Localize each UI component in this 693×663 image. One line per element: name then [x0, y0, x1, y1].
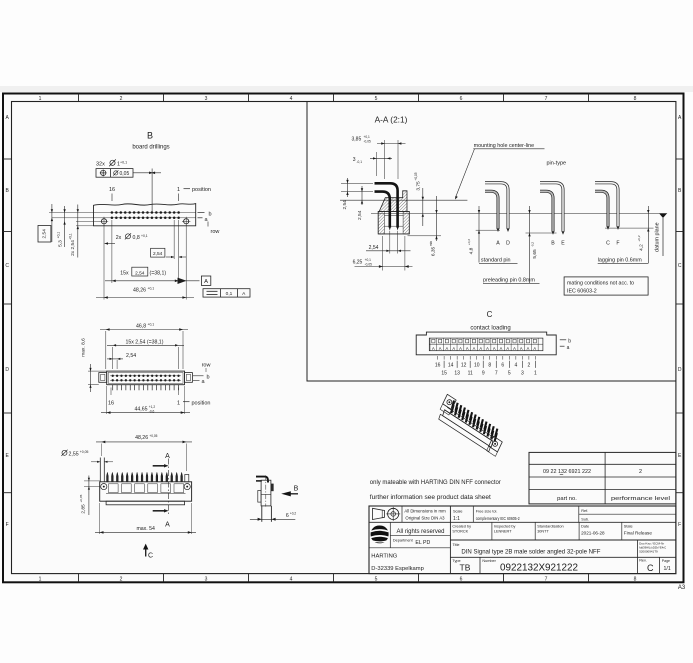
svg-text:contact loading: contact loading [470, 326, 510, 332]
svg-text:A: A [459, 346, 462, 351]
svg-text:+0,2: +0,2 [637, 235, 641, 241]
svg-text:F: F [6, 522, 9, 528]
svg-text:1/1: 1/1 [664, 566, 671, 572]
svg-text:09 22 132 6921 222: 09 22 132 6921 222 [543, 469, 591, 475]
svg-text:datum plane: datum plane [655, 222, 661, 252]
svg-text:C: C [487, 310, 493, 319]
svg-text:A: A [165, 522, 170, 529]
svg-text:C: C [5, 263, 9, 269]
svg-text:A: A [479, 346, 482, 351]
svg-text:E: E [561, 241, 565, 247]
svg-text:5: 5 [375, 96, 378, 102]
svg-text:0,8: 0,8 [133, 235, 140, 241]
svg-text:30NTT: 30NTT [537, 529, 549, 533]
svg-text:2x 2,54: 2x 2,54 [70, 240, 76, 256]
svg-text:2: 2 [639, 469, 642, 475]
svg-text:A: A [446, 346, 449, 351]
svg-text:+0,05: +0,05 [79, 494, 83, 502]
svg-text:A: A [513, 346, 516, 351]
svg-text:performance level: performance level [611, 496, 670, 502]
svg-text:2,54: 2,54 [42, 229, 48, 239]
svg-text:A: A [527, 346, 530, 351]
svg-text:3,85: 3,85 [352, 136, 362, 142]
svg-text:10: 10 [474, 363, 480, 369]
svg-text:A: A [493, 346, 496, 351]
svg-text:1: 1 [177, 400, 180, 406]
svg-text:32x: 32x [96, 162, 105, 168]
svg-text:DIN Signal type 2B male solder: DIN Signal type 2B male solder angled 32… [461, 548, 600, 555]
svg-text:2x: 2x [116, 235, 122, 241]
svg-text:A: A [432, 346, 435, 351]
svg-text:further information see produc: further information see product data she… [370, 494, 491, 501]
svg-text:A: A [496, 241, 500, 247]
svg-text:8: 8 [634, 577, 637, 583]
svg-text:6: 6 [501, 363, 504, 369]
svg-text:46,8: 46,8 [136, 324, 146, 330]
svg-text:2: 2 [527, 363, 530, 369]
svg-text:-0,05: -0,05 [364, 140, 371, 144]
svg-text:2,54: 2,54 [135, 270, 145, 276]
svg-text:2,54: 2,54 [342, 200, 348, 210]
svg-text:1: 1 [39, 96, 42, 102]
svg-text:Free size tol.: Free size tol. [476, 509, 498, 513]
svg-text:mating conditions not acc. to: mating conditions not acc. to [567, 280, 634, 286]
svg-text:520000941T9: 520000941T9 [639, 549, 658, 553]
svg-text:7: 7 [495, 371, 498, 377]
svg-text:1: 1 [39, 577, 42, 583]
svg-text:2021-06-28: 2021-06-28 [581, 530, 605, 535]
svg-text:2,85: 2,85 [80, 504, 86, 514]
svg-text:15x 2,54 (=38,1): 15x 2,54 (=38,1) [126, 340, 164, 346]
svg-text:A: A [165, 453, 170, 460]
svg-text:EL PD: EL PD [415, 540, 430, 546]
svg-text:A: A [466, 346, 469, 351]
svg-text:LENNERT: LENNERT [494, 529, 512, 533]
svg-text:TB: TB [460, 562, 471, 572]
svg-text:8: 8 [634, 96, 637, 102]
svg-text:All Dimensions in mm: All Dimensions in mm [404, 508, 446, 513]
svg-text:standard pin: standard pin [481, 257, 511, 263]
svg-text:4: 4 [514, 363, 517, 369]
svg-text:row: row [211, 229, 220, 235]
svg-text:complementary IEC 60605-2: complementary IEC 60605-2 [476, 516, 521, 521]
svg-text:4,8: 4,8 [469, 247, 475, 254]
svg-text:16: 16 [109, 187, 115, 193]
svg-text:part no.: part no. [557, 496, 577, 502]
svg-text:A3: A3 [678, 585, 686, 591]
svg-text:0,1: 0,1 [226, 291, 233, 297]
svg-text:2,54: 2,54 [369, 245, 379, 251]
svg-text:D: D [506, 241, 510, 247]
svg-text:3: 3 [205, 577, 208, 583]
svg-text:+0,1: +0,1 [56, 232, 60, 239]
svg-text:preleading pin 0.8mm: preleading pin 0.8mm [483, 277, 535, 283]
svg-text:A: A [473, 346, 476, 351]
svg-text:5,3: 5,3 [58, 240, 64, 247]
svg-text:+0,2: +0,2 [467, 239, 471, 245]
svg-text:2: 2 [120, 96, 123, 102]
svg-text:14: 14 [448, 363, 454, 369]
svg-text:48,26: 48,26 [135, 435, 148, 441]
svg-text:HARTING: HARTING [371, 554, 397, 560]
svg-text:+0,05: +0,05 [149, 434, 157, 438]
svg-text:IEC 60603-2: IEC 60603-2 [567, 289, 597, 295]
svg-text:F: F [616, 241, 619, 247]
svg-text:A-A (2:1): A-A (2:1) [375, 115, 408, 125]
svg-text:6: 6 [286, 513, 289, 519]
svg-text:3: 3 [205, 96, 208, 102]
svg-text:+0,1: +0,1 [148, 286, 155, 290]
svg-text:Inspected by: Inspected by [494, 524, 516, 528]
svg-text:Created by: Created by [452, 524, 471, 528]
svg-text:board drillings: board drillings [132, 145, 169, 151]
svg-text:-0,2: -0,2 [531, 242, 535, 248]
svg-text:+0,05: +0,05 [80, 450, 89, 454]
svg-text:+0,05: +0,05 [414, 172, 418, 180]
svg-text:max. 8,6: max. 8,6 [81, 338, 87, 357]
svg-text:48,26: 48,26 [133, 288, 146, 294]
svg-text:44,65: 44,65 [135, 406, 148, 412]
svg-text:pin-type: pin-type [547, 161, 567, 167]
svg-text:7: 7 [545, 96, 548, 102]
svg-text:A: A [506, 346, 509, 351]
svg-text:A: A [500, 346, 503, 351]
svg-text:Sub.: Sub. [581, 517, 589, 521]
svg-text:1:1: 1:1 [453, 516, 460, 522]
svg-text:3: 3 [521, 371, 524, 377]
svg-text:D-32339 Espelkamp: D-32339 Espelkamp [371, 566, 424, 572]
svg-text:Standardisation: Standardisation [537, 524, 563, 528]
svg-text:A: A [204, 279, 208, 285]
svg-text:Original Size DIN A3: Original Size DIN A3 [405, 516, 445, 521]
svg-text:2,54: 2,54 [357, 210, 363, 220]
svg-text:A: A [452, 346, 455, 351]
svg-text:15x: 15x [120, 270, 129, 276]
svg-text:12: 12 [461, 363, 467, 369]
svg-text:15: 15 [441, 371, 447, 377]
svg-text:C: C [606, 241, 610, 247]
svg-text:4: 4 [290, 577, 293, 583]
svg-text:-0,1: -0,1 [357, 160, 363, 164]
svg-text:5: 5 [508, 371, 511, 377]
svg-text:D: D [5, 367, 9, 373]
svg-text:Number: Number [482, 559, 496, 563]
svg-text:6: 6 [460, 577, 463, 583]
svg-text:Department: Department [393, 539, 414, 543]
svg-text:6: 6 [460, 96, 463, 102]
svg-text:+0,1: +0,1 [120, 160, 127, 164]
svg-text:3,75: 3,75 [415, 181, 421, 191]
svg-text:C: C [647, 563, 654, 573]
svg-text:16: 16 [435, 363, 441, 369]
svg-text:lagging pin 0.6mm: lagging pin 0.6mm [598, 257, 643, 263]
svg-text:Date: Date [581, 524, 589, 528]
svg-text:b: b [568, 338, 571, 344]
svg-text:16: 16 [108, 400, 114, 406]
svg-text:3: 3 [353, 157, 356, 163]
svg-text:Ref.: Ref. [581, 509, 588, 513]
svg-text:A: A [439, 346, 442, 351]
svg-text:Title: Title [453, 543, 460, 547]
svg-text:+0,2: +0,2 [290, 512, 297, 516]
svg-text:6,25: 6,25 [353, 259, 363, 265]
svg-text:Rev.: Rev. [639, 558, 647, 562]
svg-text:min: min [429, 241, 433, 246]
svg-text:6,35: 6,35 [430, 247, 436, 257]
svg-text:b: b [209, 211, 212, 217]
svg-text:All rights reserved: All rights reserved [396, 529, 444, 535]
svg-text:2: 2 [120, 577, 123, 583]
svg-text:(=38,1): (=38,1) [150, 270, 167, 276]
svg-text:4: 4 [290, 96, 293, 102]
svg-text:B: B [551, 241, 555, 247]
svg-text:2,54: 2,54 [126, 353, 136, 359]
svg-text:-0,05: -0,05 [365, 263, 372, 267]
svg-text:5: 5 [375, 577, 378, 583]
svg-text:C: C [148, 552, 153, 559]
svg-text:0,05: 0,05 [120, 171, 130, 177]
svg-text:1: 1 [534, 371, 537, 377]
svg-text:Final Release: Final Release [624, 530, 653, 535]
svg-text:B: B [147, 131, 153, 141]
svg-text:5,65: 5,65 [532, 249, 538, 259]
svg-text:position: position [192, 400, 211, 406]
svg-text:8: 8 [488, 363, 491, 369]
svg-text:A: A [533, 346, 536, 351]
svg-text:13: 13 [454, 371, 460, 377]
svg-text:2,55: 2,55 [69, 451, 79, 457]
svg-text:State: State [624, 524, 633, 528]
svg-text:max. 54: max. 54 [136, 526, 155, 532]
svg-text:Scale: Scale [453, 509, 463, 513]
svg-text:+0,1: +0,1 [365, 258, 372, 262]
svg-text:2,54: 2,54 [153, 251, 163, 257]
svg-text:position: position [192, 187, 211, 193]
svg-text:b: b [207, 374, 210, 380]
svg-text:C: C [678, 263, 682, 269]
svg-text:F: F [678, 522, 681, 528]
svg-text:+0,1: +0,1 [141, 234, 148, 238]
svg-text:STORCK: STORCK [452, 529, 468, 533]
svg-text:B: B [294, 486, 299, 493]
svg-text:1: 1 [177, 187, 180, 193]
svg-text:Page: Page [662, 559, 670, 563]
svg-text:row: row [202, 362, 211, 368]
svg-text:11: 11 [468, 371, 473, 377]
svg-text:7: 7 [545, 577, 548, 583]
svg-text:+0,1: +0,1 [69, 233, 73, 240]
svg-text:+0,1: +0,1 [364, 135, 371, 139]
svg-text:mounting hole center-line: mounting hole center-line [474, 143, 535, 149]
svg-text:4,2: 4,2 [638, 244, 644, 251]
svg-text:+0,1: +0,1 [148, 323, 155, 327]
svg-text:a: a [567, 345, 570, 351]
svg-text:only mateable with HARTING DIN: only mateable with HARTING DIN NFF conne… [370, 479, 501, 486]
svg-text:A: A [486, 346, 489, 351]
svg-text:0922132X921222: 0922132X921222 [500, 563, 578, 574]
svg-text:A: A [520, 346, 523, 351]
svg-text:9: 9 [482, 371, 485, 377]
svg-text:D: D [678, 367, 682, 373]
